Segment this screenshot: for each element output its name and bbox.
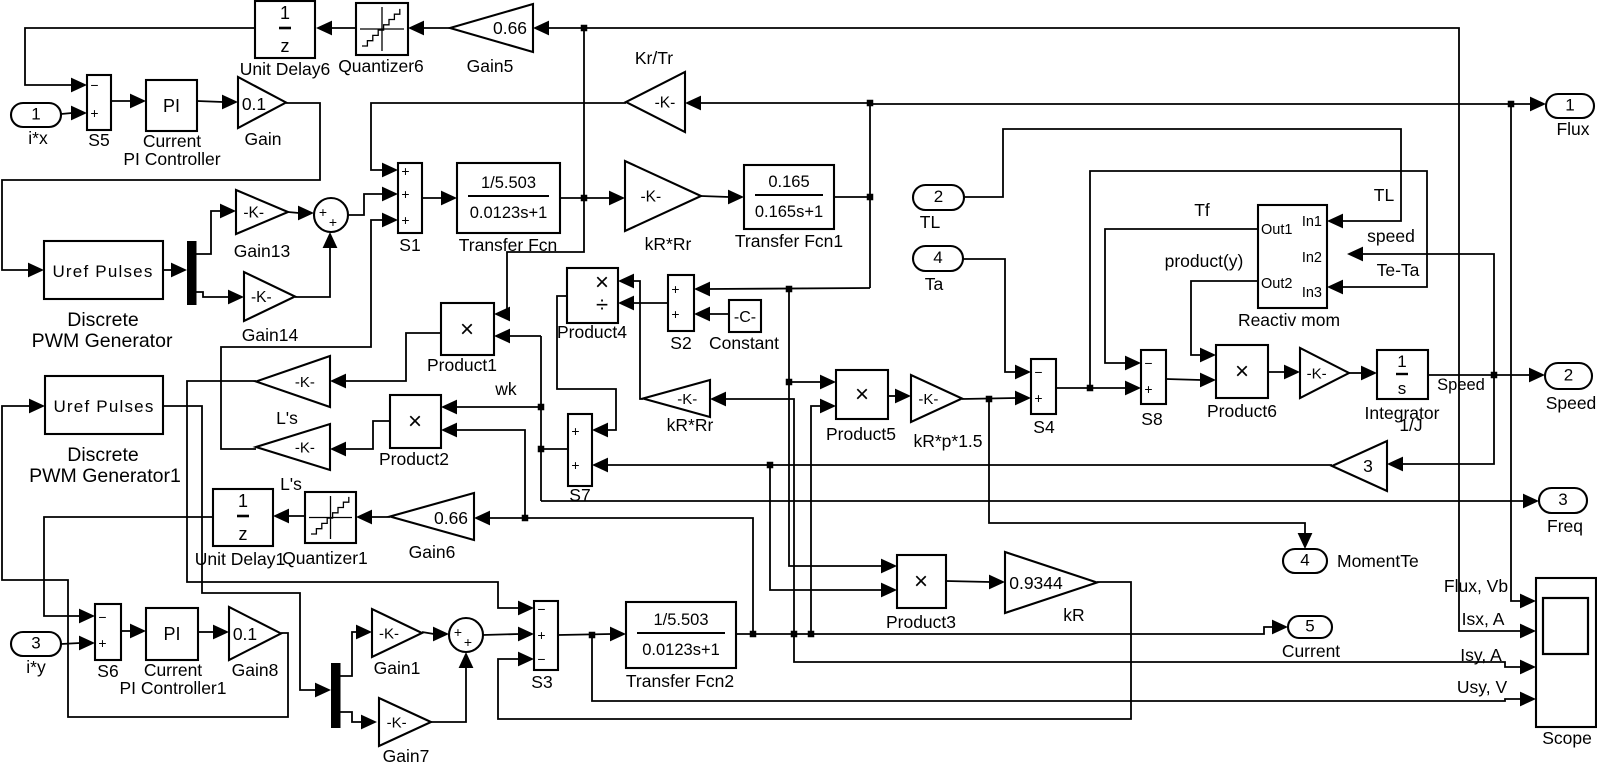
gain Ls top -K-: [256, 356, 330, 428]
junction speed: [1491, 372, 1498, 379]
svg-text:0.1: 0.1: [242, 94, 266, 114]
svg-text:Out1: Out1: [1261, 222, 1292, 238]
wire Tf Out1 to S8 minus: [1105, 229, 1258, 370]
svg-text:Transfer Fcn1: Transfer Fcn1: [735, 231, 843, 251]
svg-text:Constant: Constant: [709, 333, 779, 353]
svg-text:−: −: [537, 651, 545, 667]
wire Gain6 to Quantizer1: [356, 510, 390, 525]
wire S6 to PI2: [121, 624, 146, 639]
svg-text:In2: In2: [1302, 250, 1322, 266]
wire wk to Product2 input1: [441, 400, 541, 415]
svg-text:product(y): product(y): [1165, 251, 1244, 271]
junction on Transfer Fcn output: [581, 195, 588, 202]
svg-text:×: ×: [408, 408, 422, 435]
block Constant -C-: [709, 300, 779, 353]
wire Transfer Fcn1 out up-down at x870: [834, 103, 870, 288]
block Transfer Fcn: [457, 163, 560, 255]
svg-text:Speed: Speed: [1546, 393, 1597, 413]
svg-text:Isx, A: Isx, A: [1462, 609, 1505, 629]
block Current PI Controller1 (PI): [120, 608, 227, 698]
svg-text:Gain14: Gain14: [242, 325, 299, 345]
label Isx A: [1462, 609, 1505, 629]
svg-text:speed: speed: [1367, 226, 1415, 246]
wire flux to scope input1: [1511, 104, 1536, 608]
wire usy to scope: [592, 635, 1536, 706]
input port 1 i*x: [11, 103, 61, 148]
junction isy3: [808, 631, 815, 638]
svg-text:Gain8: Gain8: [232, 660, 279, 680]
svg-text:Freq: Freq: [1547, 516, 1583, 536]
svg-text:Discrete: Discrete: [67, 444, 139, 466]
wire branch to Product3 input2: [770, 465, 897, 597]
junction Te: [986, 396, 993, 403]
svg-text:kR*Rr: kR*Rr: [667, 415, 714, 435]
junction isy1: [750, 631, 757, 638]
label speed near In2: [1367, 226, 1415, 246]
svg-text:i*y: i*y: [26, 657, 46, 677]
svg-text:0.1: 0.1: [233, 624, 257, 644]
block Unit Delay6 1/z: [240, 1, 330, 79]
svg-text:+: +: [319, 204, 327, 220]
block Unit Delay1 1/z: [195, 489, 285, 569]
sum block S2: [668, 275, 694, 353]
svg-text:S7: S7: [569, 485, 590, 505]
svg-text:S2: S2: [670, 333, 691, 353]
wire Product2 out to Ls bottom: [330, 421, 390, 456]
wire Uref Pulses to mux: [163, 263, 187, 278]
svg-text:Isy, A: Isy, A: [1460, 645, 1502, 665]
gain kR 0.9344: [1005, 552, 1097, 625]
junction wk to Product2: [538, 404, 545, 411]
wire speed to 3 gain: [1387, 375, 1494, 471]
wire Ta to S4 minus: [963, 259, 1031, 379]
svg-text:Speed: Speed: [1437, 376, 1485, 394]
svg-text:L's: L's: [280, 474, 302, 494]
junction wk S7 out: [538, 446, 545, 453]
wire TeTa to Reactiv In3: [1090, 171, 1427, 388]
svg-text:PWM Generator1: PWM Generator1: [29, 465, 181, 487]
svg-text:0.9344: 0.9344: [1009, 573, 1063, 593]
svg-text:PI Controller1: PI Controller1: [120, 678, 227, 698]
block Discrete PWM Generator1 (Uref Pulses): [29, 376, 181, 487]
svg-text:3: 3: [1558, 490, 1567, 509]
svg-text:×: ×: [914, 568, 928, 595]
wire Gain13 to sum circle: [288, 206, 314, 221]
svg-text:−: −: [537, 601, 545, 617]
svg-text:2: 2: [934, 187, 943, 206]
svg-text:Current: Current: [1282, 641, 1340, 661]
svg-text:Usy, V: Usy, V: [1457, 677, 1508, 697]
gain Gain 0.1: [238, 77, 286, 149]
svg-text:Flux: Flux: [1556, 119, 1589, 139]
svg-text:Product4: Product4: [557, 322, 627, 342]
svg-text:-K-: -K-: [1307, 365, 1327, 382]
wire isx to Gain5: [533, 21, 584, 36]
block Product1: [427, 303, 497, 375]
svg-text:4: 4: [1300, 551, 1309, 570]
wire Unit Delay1 out to S6 minus: [44, 517, 213, 623]
wire Te to MomentTe port: [989, 399, 1312, 549]
wire kR*Rr to Transfer Fcn1: [701, 190, 744, 205]
svg-text:+: +: [98, 635, 106, 651]
block Product6: [1207, 345, 1277, 421]
svg-text:1: 1: [1565, 96, 1574, 115]
wire sum circle2 to S3 plus: [483, 627, 534, 642]
junction usy: [589, 632, 596, 639]
gain Gain14 -K-: [242, 272, 299, 345]
output port 3 Freq: [1539, 488, 1587, 536]
svg-text:PWM Generator: PWM Generator: [32, 330, 173, 352]
gain 1/J -K-: [1300, 348, 1440, 435]
svg-text:−: −: [1034, 364, 1042, 380]
svg-text:+: +: [671, 306, 679, 322]
wire isx down to Product1 input1: [494, 198, 584, 321]
junction isy2: [791, 631, 798, 638]
wire isy to Gain6: [474, 511, 753, 634]
svg-text:kR: kR: [1063, 605, 1084, 625]
svg-text:3: 3: [31, 634, 40, 653]
wire sum circle to S1 middle: [348, 187, 398, 215]
sum block S4: [1031, 359, 1056, 437]
output port 1 Flux: [1546, 94, 1594, 139]
svg-text:Uref Pulses: Uref Pulses: [52, 262, 153, 281]
svg-text:+: +: [671, 281, 679, 297]
svg-text:Gain7: Gain7: [383, 746, 430, 763]
wire Quantizer6 to Unit Delay6: [316, 21, 356, 36]
wire Constant to S2: [694, 307, 729, 322]
svg-text:×: ×: [1235, 358, 1249, 385]
label TL near In1: [1374, 185, 1395, 205]
svg-text:Product1: Product1: [427, 355, 497, 375]
svg-text:1: 1: [280, 3, 290, 23]
block Discrete PWM Generator (Uref Pulses): [32, 241, 173, 352]
wire TL to Reactiv In1: [964, 129, 1401, 228]
gain Gain6 0.66: [390, 493, 474, 562]
svg-text:-K-: -K-: [379, 625, 399, 642]
svg-text:+: +: [537, 627, 545, 643]
svg-text:z: z: [239, 524, 248, 544]
wire Unit Delay6 out to S5 minus: [25, 28, 256, 92]
svg-text:+: +: [464, 634, 472, 650]
svg-text:Transfer Fcn2: Transfer Fcn2: [626, 671, 734, 691]
gain Ls bottom -K-: [256, 424, 330, 494]
svg-text:+: +: [329, 214, 337, 230]
block Product2: [379, 395, 449, 469]
wire Ls bottom out to S1 third input: [221, 213, 398, 449]
wire wk to Product1 input2: [494, 329, 541, 344]
wire speed to Reactiv In2: [1347, 247, 1494, 375]
svg-text:Product5: Product5: [826, 424, 896, 444]
block Transfer Fcn2: [626, 602, 736, 691]
wire S7 out to wk node: [541, 448, 568, 450]
gain Gain13 -K-: [234, 190, 290, 261]
svg-text:S1: S1: [399, 235, 420, 255]
svg-text:S6: S6: [97, 661, 118, 681]
sum block S1: [398, 163, 422, 255]
svg-text:+: +: [454, 624, 462, 640]
junction isx top: [581, 25, 588, 32]
gain 3: [1332, 441, 1387, 491]
svg-text:+: +: [571, 457, 579, 473]
wire Product1 out to Ls top: [330, 333, 441, 388]
wire branch to Product2 input2: [441, 423, 525, 518]
svg-text:Current: Current: [143, 131, 201, 151]
label Ls near Quantizer1: [0, 0, 1, 1]
wire port3 to S6 plus: [61, 636, 95, 651]
output port 2 Speed: [1545, 363, 1596, 413]
block Transfer Fcn1: [735, 165, 843, 251]
svg-text:1: 1: [238, 491, 248, 511]
svg-text:TL: TL: [1374, 185, 1395, 205]
block Quantizer1: [282, 492, 368, 568]
junction flux scope branch: [1508, 101, 1515, 108]
mux bar 2: [331, 663, 341, 728]
svg-text:Quantizer6: Quantizer6: [338, 56, 424, 76]
svg-text:+: +: [401, 186, 409, 202]
label product(y): [1165, 251, 1244, 271]
junction flux-S2 branch x789: [786, 286, 793, 293]
block Scope: [1536, 578, 1596, 748]
svg-text:Ta: Ta: [925, 274, 944, 294]
wire Integrator to Speed port: [1428, 368, 1545, 394]
gain kR*Rr -K-: [625, 161, 701, 254]
wire mux2 to Gain7: [341, 712, 378, 729]
block Integrator 1/s: [1377, 350, 1428, 399]
svg-text:S8: S8: [1141, 409, 1162, 429]
svg-text:S4: S4: [1033, 417, 1055, 437]
wire Product5 to kRp gain: [888, 389, 911, 404]
junction isy gain6 branch: [522, 515, 529, 522]
svg-text:-K-: -K-: [641, 188, 662, 205]
wire flux to Kr/Tr input: [685, 96, 870, 111]
wire PI2 to Gain8: [198, 625, 229, 640]
wire vertical x789 to Product5 and Product3: [789, 289, 897, 573]
block Reactiv mom: [1238, 205, 1340, 330]
svg-text:PI: PI: [163, 96, 180, 116]
wire KrTr out to S1 first input: [371, 103, 626, 177]
wire S2 out to Product4 divide input: [618, 296, 668, 311]
gain Gain5 0.66: [450, 4, 533, 76]
svg-text:Gain6: Gain6: [409, 542, 456, 562]
wire Uref Pulses1 to mux2: [163, 406, 331, 697]
svg-text:Flux, Vb: Flux, Vb: [1444, 576, 1508, 596]
svg-text:4: 4: [933, 248, 942, 267]
wire Gain out to Uref Pulses: [2, 103, 320, 277]
svg-text:+: +: [1144, 381, 1152, 397]
svg-text:+: +: [571, 423, 579, 439]
wire wk vertical: [540, 336, 542, 501]
wire PI to Gain: [197, 95, 238, 110]
svg-text:wk: wk: [494, 379, 517, 399]
svg-text:1/5.503: 1/5.503: [653, 611, 708, 629]
wire kR*Rr2 out to Product4 times input: [618, 274, 643, 399]
svg-text:-K-: -K-: [655, 94, 676, 111]
svg-text:z: z: [281, 36, 290, 56]
svg-text:×: ×: [460, 316, 474, 343]
label Usy V: [1457, 677, 1508, 697]
svg-text:TL: TL: [920, 212, 941, 232]
svg-text:-K-: -K-: [918, 391, 938, 408]
sum block S8: [1141, 350, 1166, 429]
svg-text:−: −: [98, 609, 106, 625]
wire kR out to S3 third input: [498, 582, 1131, 719]
wire Transfer Fcn to kR*Rr: [560, 191, 625, 206]
svg-text:1: 1: [31, 105, 40, 124]
input port 4 Ta: [913, 246, 963, 294]
label wk: [494, 379, 517, 399]
svg-text:s: s: [1398, 379, 1407, 398]
wire Gain14 to sum circle: [295, 232, 337, 297]
svg-text:2: 2: [1564, 366, 1573, 385]
svg-text:L's: L's: [276, 408, 298, 428]
svg-text:3: 3: [1363, 456, 1373, 476]
svg-text:+: +: [401, 163, 409, 179]
wire Ls top out to S3 first input: [187, 381, 534, 615]
sum circle 2: [449, 618, 483, 652]
svg-text:Product6: Product6: [1207, 401, 1277, 421]
sum block S7: [568, 414, 592, 505]
svg-text:S5: S5: [88, 130, 109, 150]
wire flux to Flux port: [870, 97, 1546, 112]
svg-text:÷: ÷: [596, 292, 608, 317]
svg-text:kR*Rr: kR*Rr: [645, 234, 692, 254]
input port 2 TL: [913, 185, 964, 232]
block Current PI Controller (PI): [123, 80, 220, 169]
svg-text:MomentTe: MomentTe: [1337, 551, 1419, 571]
wire S1 to Transfer Fcn: [422, 191, 457, 206]
wire isx up the left and across top: [584, 28, 1536, 638]
wire port1 to S5 plus: [61, 106, 87, 121]
svg-text:1: 1: [1397, 352, 1406, 371]
svg-text:0.165: 0.165: [768, 173, 809, 191]
wire kRp out to S4 plus: [962, 391, 1031, 406]
gain kR*p*1.5 -K-: [911, 375, 983, 451]
svg-text:Product2: Product2: [379, 449, 449, 469]
svg-text:Te-Ta: Te-Ta: [1377, 260, 1420, 280]
mux bar 1: [187, 241, 197, 305]
sum block S3: [531, 601, 558, 692]
svg-text:Unit Delay1: Unit Delay1: [195, 549, 285, 569]
wire Gain8 out to Uref Pulses1: [2, 399, 288, 717]
wire S4 out to S8 plus: [1056, 381, 1141, 396]
wire wk to Freq port: [541, 494, 1539, 509]
wire isy to Product5 input2: [811, 399, 836, 635]
wire Gain1 to sum circle2: [422, 627, 449, 642]
label Isy A: [1460, 645, 1502, 665]
wire 3gain out to S7 second input: [592, 458, 1332, 473]
svg-text:Quantizer1: Quantizer1: [282, 548, 368, 568]
sum block S5: [87, 75, 111, 150]
junction wk freq: [767, 462, 774, 469]
svg-text:Scope: Scope: [1542, 728, 1592, 748]
output port 4 MomentTe: [1283, 549, 1419, 573]
svg-text:0.0123s+1: 0.0123s+1: [642, 641, 720, 659]
junction TeTa: [1087, 385, 1094, 392]
input port 3 i*y: [11, 632, 61, 677]
svg-text:i*x: i*x: [28, 128, 48, 148]
svg-text:Tf: Tf: [1194, 200, 1210, 220]
sum block S6: [95, 604, 121, 681]
wire Quantizer1 to Unit Delay1: [273, 509, 305, 524]
wire 1/J to Integrator: [1349, 366, 1377, 381]
svg-text:Discrete: Discrete: [67, 309, 139, 331]
svg-text:-K-: -K-: [387, 714, 407, 731]
svg-text:+: +: [90, 105, 98, 121]
svg-text:Reactiv mom: Reactiv mom: [1238, 310, 1340, 330]
svg-text:Kr/Tr: Kr/Tr: [635, 48, 673, 68]
svg-text:-K-: -K-: [251, 289, 272, 306]
wire Product4 out to S7 first input: [557, 296, 616, 437]
wire S8 out to Product6: [1166, 373, 1216, 388]
wire mux to Gain13: [196, 204, 236, 254]
wire isy to scope: [794, 634, 1536, 674]
wire S5 to PI: [111, 94, 146, 109]
svg-text:Gain1: Gain1: [374, 658, 421, 678]
svg-text:Unit Delay6: Unit Delay6: [240, 59, 330, 79]
svg-text:0.165s+1: 0.165s+1: [755, 203, 823, 221]
wire Product3 to kR gain: [946, 575, 1005, 590]
svg-text:-K-: -K-: [295, 439, 315, 456]
svg-text:-K-: -K-: [677, 391, 697, 408]
svg-text:Gain: Gain: [245, 129, 282, 149]
gain Gain7 -K-: [379, 698, 431, 763]
wire Product6 to 1/J gain: [1268, 365, 1300, 380]
svg-text:Product3: Product3: [886, 612, 956, 632]
svg-text:−: −: [1144, 355, 1152, 371]
svg-text:-C-: -C-: [734, 309, 756, 326]
wire Gain5 to Quantizer6: [408, 21, 450, 36]
junction at 870,197: [867, 194, 874, 201]
svg-text:-K-: -K-: [243, 204, 264, 221]
svg-text:Gain13: Gain13: [234, 241, 290, 261]
block Product4: [557, 268, 627, 342]
svg-text:Gain5: Gain5: [467, 56, 514, 76]
svg-text:PI: PI: [163, 624, 180, 644]
svg-text:kR*p*1.5: kR*p*1.5: [913, 431, 982, 451]
svg-text:+: +: [401, 212, 409, 228]
sum circle 1: [314, 198, 348, 232]
svg-text:0.0123s+1: 0.0123s+1: [470, 204, 548, 222]
svg-text:×: ×: [855, 381, 869, 408]
svg-text:In1: In1: [1302, 214, 1322, 230]
svg-text:0.66: 0.66: [493, 18, 527, 38]
svg-text:0.66: 0.66: [434, 508, 468, 528]
junction at 870,103: [867, 100, 874, 107]
output port 5 Current: [1282, 616, 1340, 661]
label Te-Ta near In3: [1377, 260, 1420, 280]
svg-text:In3: In3: [1302, 285, 1322, 301]
svg-text:1/J: 1/J: [1399, 415, 1422, 435]
svg-text:Out2: Out2: [1261, 276, 1292, 292]
svg-text:Uref Pulses: Uref Pulses: [53, 397, 154, 416]
svg-text:−: −: [90, 77, 98, 93]
gain Gain8 0.1: [229, 607, 281, 680]
label Tf: [1194, 200, 1210, 220]
svg-text:5: 5: [1305, 617, 1314, 636]
gain Gain1 -K-: [372, 609, 422, 678]
wire mux to Gain14: [196, 290, 244, 305]
svg-text:-K-: -K-: [295, 374, 315, 391]
block Quantizer6: [338, 3, 424, 76]
block Product5: [826, 370, 896, 444]
label Flux Vb: [1444, 576, 1508, 596]
wire Out2 to Product6 input1: [1191, 281, 1258, 362]
wire Gain7 to sum circle2: [431, 652, 473, 722]
svg-text:1/5.503: 1/5.503: [481, 174, 536, 192]
gain Kr/Tr -K-: [626, 48, 685, 132]
block Product3: [886, 555, 956, 632]
wire kRr2 input from isy: [710, 392, 794, 635]
